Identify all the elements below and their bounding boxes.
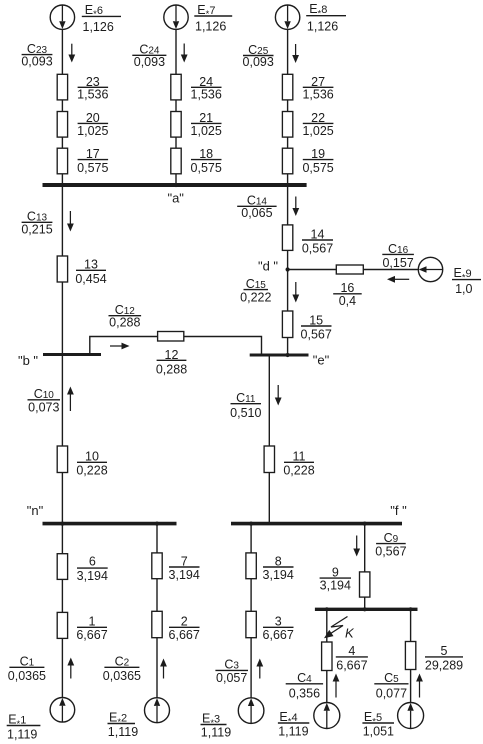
svg-text:C15: C15 [246,277,267,291]
wire node d to resistor 16 to E9 [288,269,419,271]
resistor 19 [282,148,292,174]
label 14 / 0,567 [302,239,333,241]
svg-text:0,228: 0,228 [283,463,314,477]
generator E3 [238,698,264,724]
label 19 / 0,575 [303,159,334,161]
label 4 / 6,667 [336,656,368,658]
junction bus a / E6 column [60,183,64,187]
label E*7 / 1,126 [194,15,232,17]
svg-text:1,025: 1,025 [191,124,222,138]
svg-text:0,228: 0,228 [76,463,107,477]
label 15 / 0,567 [301,325,332,327]
label C1 / 0,0365 [9,666,44,668]
svg-text:3,194: 3,194 [320,579,351,593]
svg-text:10: 10 [85,450,99,464]
junction bus f / resistor 9 column [363,522,367,526]
fault K lightning bolt [328,617,348,636]
svg-text:3,194: 3,194 [169,568,200,582]
svg-text:11: 11 [293,450,306,464]
label 17 / 0,575 [78,159,109,161]
label 8 / 3,194 [263,566,294,568]
junction bus n / E2 column [155,522,159,526]
label E*2 / 1,119 [108,723,136,725]
svg-text:0,093: 0,093 [21,55,52,69]
label E*5 / 1,051 [362,722,394,724]
svg-text:3,194: 3,194 [263,568,294,582]
resistor 21 [171,112,181,138]
svg-text:18: 18 [199,147,213,161]
label 27 / 1,536 [303,86,334,88]
resistor 24 [171,74,181,100]
svg-text:C11: C11 [236,391,256,405]
label 10 / 0,228 [77,461,107,463]
label C16 / 0,157 [382,253,414,255]
svg-text:0,567: 0,567 [375,544,406,558]
label C14 / 0,065 [237,205,276,207]
label E*4 / 1,119 [278,722,309,724]
generator E6 [50,5,74,29]
junction sub-bus / E4 column [325,607,329,611]
svg-text:1,119: 1,119 [278,725,308,739]
svg-text:0,073: 0,073 [28,400,59,414]
svg-text:1,126: 1,126 [195,19,226,33]
junction bus e / node d column [286,353,290,357]
resistor 4 [322,642,332,671]
resistor 14 [282,225,292,251]
arrow current C23 [71,44,73,55]
svg-text:0,065: 0,065 [241,206,272,220]
svg-text:"n": "n" [27,503,44,518]
resistor 9 [360,572,370,597]
svg-text:1,536: 1,536 [77,88,108,102]
wire sub-bus to E5 [410,609,412,703]
arrow current C11 [277,385,279,398]
svg-text:0,0365: 0,0365 [8,669,46,683]
label C13 / 0,215 [22,221,53,223]
svg-text:1,025: 1,025 [302,124,333,138]
label 12 / 0,288 [157,359,187,361]
svg-text:6,667: 6,667 [336,659,367,673]
label E*1 / 1,119 [7,725,41,727]
resistor 6 [57,554,67,580]
generator E2 [145,698,170,723]
svg-text:0,093: 0,093 [243,55,274,69]
svg-text:13: 13 [84,258,98,272]
label E*3 / 1,119 [201,724,227,726]
svg-text:6,667: 6,667 [263,628,294,642]
label C11 / 0,510 [231,403,262,405]
label 21 / 1,025 [191,122,222,124]
label C3 / 0,057 [215,669,248,671]
label 22 / 1,025 [303,122,334,124]
svg-text:C3: C3 [224,658,239,672]
svg-text:0,4: 0,4 [339,294,356,308]
resistor 22 [282,112,292,138]
wire column E6-bus a-bus b-bus n-E1 [61,29,63,698]
label C5 / 0,077 [374,683,408,685]
svg-text:6,667: 6,667 [169,628,200,642]
svg-text:19: 19 [311,147,325,161]
svg-text:1,536: 1,536 [191,88,222,102]
svg-text:C13: C13 [27,210,48,224]
svg-text:0,222: 0,222 [240,291,271,305]
label 1 / 6,667 [77,626,107,628]
svg-text:1,0: 1,0 [455,282,472,296]
wire bus e to resistor 11 to bus f [268,356,270,524]
svg-text:0,567: 0,567 [302,241,333,255]
label 2 / 6,667 [169,626,200,628]
arrow current C15 [295,282,297,295]
svg-text:1,126: 1,126 [307,19,338,33]
svg-text:15: 15 [309,313,323,327]
node d [286,267,290,271]
resistor 1 [57,612,67,638]
label C9 / 0,567 [376,543,406,545]
sub-bus below resistor 9 [315,608,418,611]
bus e [250,354,309,357]
arrow current C10 [69,395,71,412]
arrow current C1 [70,666,72,679]
arrow current C24 [183,44,185,55]
arrow current C3 [259,667,261,679]
svg-text:0,288: 0,288 [109,316,140,330]
wire sub-bus to E4 [326,609,328,703]
svg-text:"e": "e" [313,352,330,367]
wire column E7 to bus a [175,29,177,185]
svg-text:"d ": "d " [258,259,278,274]
svg-text:C5: C5 [384,671,399,685]
label 6 / 3,194 [77,567,108,569]
label C12 / 0,288 [109,315,142,317]
resistor 15 [282,311,292,338]
junction sub-bus / resistor 9 [363,607,367,611]
resistor 16 [336,265,363,274]
label C24 / 0,093 [132,54,166,56]
resistor 3 [246,611,256,637]
svg-text:3: 3 [275,614,282,628]
generator E7 [164,5,188,29]
generator E5 [398,703,424,729]
wire column E8-bus a-node d-bus e [287,29,289,355]
svg-text:C1: C1 [20,655,35,669]
svg-text:0,057: 0,057 [216,671,247,685]
svg-text:C9: C9 [384,531,399,545]
svg-text:22: 22 [311,111,325,125]
svg-text:8: 8 [275,555,282,569]
wire bus f to E3 [250,524,252,698]
resistor 20 [57,112,67,138]
svg-text:C16: C16 [388,242,409,256]
svg-text:0,575: 0,575 [77,161,108,175]
svg-text:0,575: 0,575 [191,161,222,175]
label 3 / 6,667 [263,626,294,628]
svg-text:1,025: 1,025 [77,124,108,138]
arrow current C14 [295,197,297,209]
arrow current C2 [163,667,165,679]
resistor 5 [405,642,415,670]
svg-text:1,126: 1,126 [83,20,114,34]
label 9 / 3,194 [320,577,351,579]
svg-text:6,667: 6,667 [76,628,107,642]
resistor 18 [171,148,181,174]
svg-text:1,119: 1,119 [108,725,138,739]
label 24 / 1,536 [191,86,222,88]
label E*6 / 1,126 [82,15,121,17]
resistor 2 [152,611,162,637]
svg-text:4: 4 [348,644,355,658]
bus f [231,522,402,526]
label 20 / 1,025 [78,122,109,124]
svg-text:0,0365: 0,0365 [103,669,141,683]
svg-text:0,567: 0,567 [301,327,332,341]
svg-text:"f ": "f " [390,503,407,518]
svg-text:3,194: 3,194 [77,569,108,583]
svg-text:1,119: 1,119 [201,726,231,740]
svg-text:29,289: 29,289 [425,659,463,673]
label 5 / 29,289 [425,656,463,658]
label C23 / 0,093 [22,54,53,56]
svg-text:C10: C10 [34,387,55,401]
label 23 / 1,536 [78,86,109,88]
arrow current C16 [395,278,409,280]
junction bus a / E7 column [174,183,178,187]
svg-text:0,077: 0,077 [376,687,407,701]
wire bus n to E2 [156,524,158,698]
label E*9 / 1,0 [452,279,481,281]
wire bus f to resistor 9 to sub-bus [364,524,366,609]
label C4 / 0,356 [286,683,323,685]
svg-text:C4: C4 [297,671,312,685]
svg-text:2: 2 [181,614,188,628]
svg-text:"a": "a" [167,190,184,205]
generator E9 [418,257,442,281]
svg-text:1,536: 1,536 [302,88,333,102]
svg-text:0,215: 0,215 [21,223,52,237]
svg-text:9: 9 [332,566,339,580]
svg-text:14: 14 [311,227,325,241]
bus a [43,183,307,187]
svg-text:0,575: 0,575 [302,161,333,175]
junction bus f / E3 column [249,522,253,526]
resistor 17 [57,148,67,174]
svg-text:0,510: 0,510 [230,406,261,420]
label 7 / 3,194 [169,566,200,568]
resistor 10 [57,446,67,473]
resistor 13 [57,256,67,282]
junction sub-bus / E5 column [409,607,413,611]
resistor 12 [158,332,184,342]
junction bus n / E1 column [60,522,64,526]
svg-text:7: 7 [181,555,188,569]
svg-text:17: 17 [86,147,100,161]
svg-text:C2: C2 [115,655,130,669]
svg-text:12: 12 [165,348,179,362]
svg-text:0,157: 0,157 [382,256,413,270]
generator E4 [314,703,340,729]
svg-text:1: 1 [89,614,96,628]
svg-text:20: 20 [86,111,100,125]
arrow current C9 [356,536,358,549]
label C25 / 0,093 [243,55,274,57]
label C10 / 0,073 [28,399,61,401]
svg-text:5: 5 [441,644,448,658]
label 18 / 0,575 [191,159,222,161]
label 11 / 0,228 [284,461,314,463]
arrow current C5 [419,682,421,698]
bus b [43,353,101,356]
generator E8 [275,5,299,29]
label 16 / 0,4 [333,293,362,295]
resistor 23 [57,74,67,100]
label C2 / 0,0365 [104,666,139,668]
label C15 / 0,222 [244,289,269,291]
svg-text:6: 6 [89,555,96,569]
resistor 7 [152,553,162,579]
svg-text:K: K [345,626,355,641]
arrow current C4 [335,682,337,698]
svg-text:"b ": "b " [18,353,38,368]
svg-text:1,119: 1,119 [7,728,37,742]
junction bus a / E8 column [286,183,290,187]
svg-text:1,051: 1,051 [363,725,394,739]
svg-text:0,454: 0,454 [75,272,106,286]
bus n [43,522,177,526]
svg-text:0,356: 0,356 [289,687,320,701]
label 13 / 0,454 [76,269,106,271]
svg-text:0,288: 0,288 [156,362,187,376]
svg-text:0,093: 0,093 [134,55,165,69]
label E*8 / 1,126 [306,15,346,17]
svg-text:21: 21 [199,111,213,125]
resistor 11 [264,446,274,473]
wire bus b elbow to resistor 12 to bus e [90,337,262,356]
resistor 27 [282,74,292,100]
resistor 8 [246,553,256,579]
arrow current C13 [69,211,71,224]
arrow current C12 [110,345,122,347]
arrow current C25 [295,44,297,55]
generator E1 [50,698,75,723]
